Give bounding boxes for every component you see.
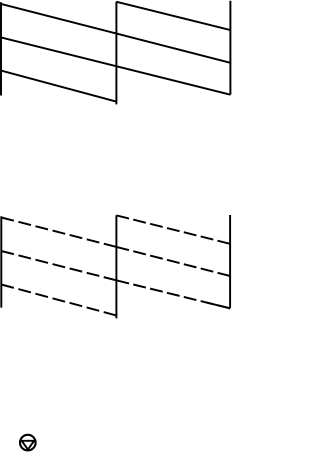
good nozzle check pattern (solid zigzag) [1,1,230,105]
wire vertical V1 [0,2,2,95]
stop button icon [20,435,36,451]
wire dashed diagonal D1b col2 [116,247,230,276]
wire dashed diagonal D2b col1 [1,251,116,280]
wire diagonal D0 [116,2,230,30]
bad nozzle check pattern (dashed zigzag) [1,215,230,318]
wire dashed diagonal D1b col1 [1,218,116,247]
wire diagonal D2 [1,37,230,94]
wire vertical V1b [0,216,2,307]
wire dashed diagonal D0b [116,215,230,243]
wire vertical V2b [115,215,117,318]
wire diagonal D3 [1,71,116,102]
icon circle [20,435,36,451]
wire dashed diagonal D3b [1,285,116,316]
wire vertical V3b [229,215,231,308]
icon triangle [22,441,34,450]
wire solid end run into bottom-right corner [206,302,230,308]
wire diagonal D1 [1,4,230,63]
wire vertical V2 [115,2,117,105]
wire vertical V3 [229,1,231,95]
wire dashed diagonal D2b col2 [116,280,230,308]
